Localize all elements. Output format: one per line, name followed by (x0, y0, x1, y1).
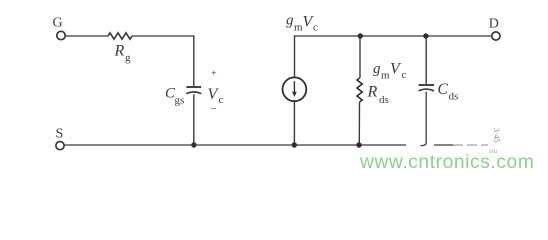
terminal G circle (57, 31, 65, 39)
bottom rail wire (64, 144, 406, 146)
svg-text:c: c (313, 22, 318, 34)
wire down to capacitor Cgs top (193, 35, 195, 86)
current source arrow (293, 81, 295, 93)
svg-text:c: c (402, 69, 407, 81)
svg-text:−: − (211, 103, 217, 115)
svg-text:+: + (211, 69, 217, 80)
junction dot Rds-bottom (356, 142, 361, 147)
terminal D circle (492, 32, 500, 40)
svg-text:gs: gs (175, 95, 185, 107)
svg-text:m: m (381, 70, 390, 82)
capacitor Cds top plate (419, 84, 434, 86)
wire top rail down to resistor Rds (359, 36, 361, 78)
wire Cds to bottom rail with hook (421, 92, 427, 146)
svg-text:ds: ds (449, 91, 459, 103)
junction dot Cds-top (423, 33, 428, 38)
svg-text:D: D (489, 17, 499, 32)
svg-text:g: g (373, 61, 381, 77)
svg-text:g: g (125, 52, 131, 64)
bottom rail continuation right (faded scan) (434, 144, 453, 146)
current source U1 circle (283, 77, 307, 101)
wire current source to bottom rail (293, 101, 295, 145)
svg-text:g: g (286, 13, 294, 29)
capacitor Cgs bottom plate (186, 92, 201, 94)
wire resistor to Cgs node (132, 35, 194, 37)
svg-text:G: G (53, 16, 63, 31)
wire top rail down to capacitor Cds (425, 36, 427, 84)
wire resistor Rds to bottom rail (358, 102, 360, 145)
capacitor Cds bottom plate (419, 89, 434, 91)
svg-text:C: C (438, 81, 449, 98)
capacitor Cgs top plate (186, 86, 201, 88)
wire top rail down to current source (294, 35, 296, 77)
terminal S circle (56, 142, 64, 150)
junction dot Rds-top (358, 33, 363, 38)
wire dashes faded right (453, 144, 488, 146)
svg-text:R: R (367, 84, 378, 101)
svg-text:3·45: 3·45 (492, 128, 501, 143)
wire Cgs bottom to bottom rail (193, 94, 195, 145)
svg-text:www.cntronics.com: www.cntronics.com (359, 152, 534, 173)
svg-text:c: c (219, 94, 224, 106)
svg-text:S: S (56, 127, 64, 142)
wire G to resistor Rg (65, 35, 108, 37)
svg-text:R: R (114, 43, 125, 60)
resistor Rds zigzag (357, 78, 362, 102)
junction dot Cgs-bottom (191, 142, 196, 147)
top rail wire (current source to D) (294, 35, 492, 37)
resistor Rg zigzag (108, 33, 132, 39)
junction dot source-bottom (292, 142, 297, 147)
svg-text:ds: ds (379, 94, 389, 106)
